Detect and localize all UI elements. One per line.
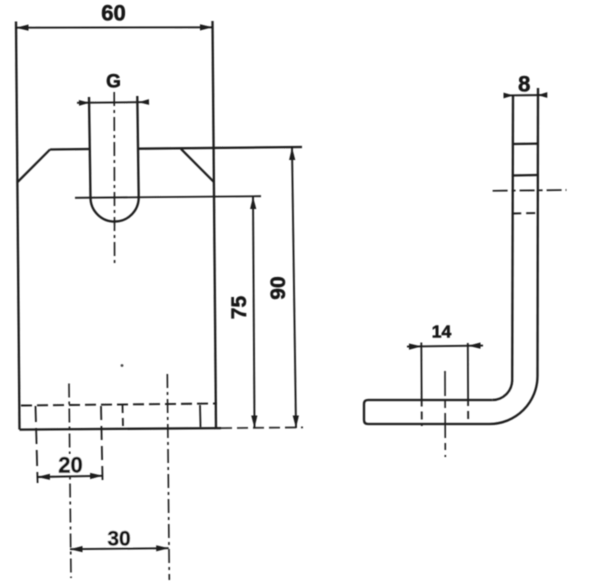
dimension 75 top arrow	[250, 197, 256, 209]
dimension 8 right arrow (outside)	[538, 92, 548, 98]
dimension 90 line	[292, 147, 296, 428]
chamfer top-right	[181, 149, 214, 182]
hole 1 centerline	[69, 384, 71, 579]
halo 30	[106, 529, 133, 547]
side view flange hole hidden edge left	[420, 343, 423, 427]
stray scan speck	[121, 364, 124, 367]
side view flange hole centerline	[444, 371, 446, 457]
bend hidden line	[21, 404, 217, 406]
side view strip left edge	[511, 96, 514, 380]
dimension 30 left arrow	[70, 546, 83, 552]
svg-text:90: 90	[267, 276, 290, 299]
slot centerline vertical	[113, 92, 115, 265]
bottom slot 1 left edge tick	[36, 406, 38, 483]
dimension G right arrow (outside)	[139, 99, 149, 105]
dimension 60 left arrow	[16, 25, 29, 31]
side view hole axis centerline	[493, 189, 567, 192]
side view flange hole hidden edge right	[467, 343, 469, 424]
dimension 20 line	[37, 476, 102, 477]
body top shoulder left segment	[50, 148, 90, 151]
svg-text:20: 20	[58, 453, 82, 478]
hole 2 centerline	[167, 374, 169, 580]
dimension 30 right arrow	[156, 545, 169, 551]
slot bottom arc	[91, 198, 139, 222]
side view chamfer depth line 2	[512, 174, 538, 177]
dimension 30 line	[70, 548, 169, 549]
chamfer top-left	[17, 150, 50, 183]
bottom slot 1 right edge tick	[101, 406, 103, 484]
dimension 14 left arrow (outside)	[409, 344, 422, 350]
dimension 14 line	[407, 346, 483, 347]
halo 20	[57, 454, 84, 473]
dimension 20 left arrow	[37, 474, 50, 480]
dimension 20 right arrow	[90, 473, 103, 479]
slot right edge	[137, 96, 138, 198]
dimension 75 bottom arrow	[251, 416, 257, 429]
svg-text:14: 14	[432, 322, 452, 342]
dimension 60 right arrow	[200, 24, 213, 30]
svg-text:60: 60	[101, 1, 125, 26]
body bottom edge	[20, 428, 222, 430]
side view outer bend arc	[490, 376, 538, 424]
side view strip right edge	[536, 88, 539, 376]
svg-text:75: 75	[228, 296, 251, 320]
dimension 90 top arrow	[289, 147, 295, 160]
body left edge	[16, 22, 20, 430]
dimension 8 line (top edge of strip)	[504, 94, 547, 97]
dimension 8 left arrow (outside)	[504, 93, 514, 99]
slot left edge	[89, 97, 91, 198]
side view flange outline	[364, 400, 492, 424]
svg-text:8: 8	[518, 72, 530, 97]
bottom extension line to dimensions	[221, 426, 303, 429]
svg-text:30: 30	[107, 528, 130, 551]
dimension 60 line	[16, 26, 213, 28]
dimension G line	[77, 101, 149, 104]
dimension 75 line	[253, 197, 255, 428]
side view thread hidden line	[512, 212, 538, 215]
dimension 14 right arrow (outside)	[468, 343, 481, 349]
dimension 90 bottom arrow	[293, 416, 299, 429]
body right edge	[213, 21, 217, 429]
bottom slot 2 left edge tick	[122, 405, 125, 427]
side view inner bend arc	[492, 380, 512, 400]
svg-text:G: G	[106, 72, 121, 93]
side view chamfer depth line 1	[513, 142, 539, 145]
body top shoulder right segment + 90 extension line	[139, 147, 302, 149]
dimension G left arrow (outside)	[79, 100, 90, 106]
bottom slot 2 right edge tick	[199, 405, 202, 427]
slot extension line for 75	[75, 196, 261, 198]
